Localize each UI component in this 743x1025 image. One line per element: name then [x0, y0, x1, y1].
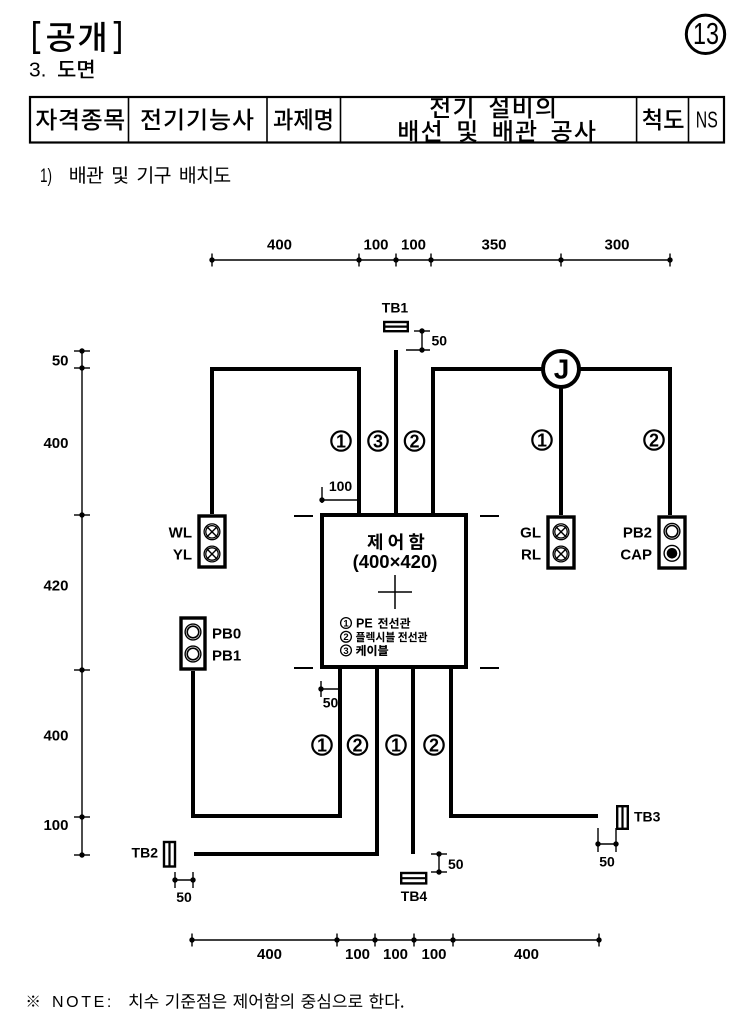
control box center cross	[378, 575, 412, 609]
label TB4	[401, 888, 428, 904]
control box centerline dashes	[294, 516, 499, 668]
junction box J	[543, 351, 579, 387]
svg-text:1: 1	[391, 735, 401, 755]
terminal block TB4	[401, 873, 426, 883]
label TB3	[634, 809, 661, 825]
terminal block TB1	[384, 322, 408, 331]
label PB1	[212, 647, 241, 664]
svg-text:50: 50	[176, 889, 192, 905]
note ※ NOTE: 치수 기준점은 제어함의 중심으로 한다.	[28, 993, 404, 1011]
terminal block TB3	[617, 806, 628, 829]
table cell NS	[696, 107, 718, 133]
legend line ② 플렉시블 전선관	[341, 631, 428, 643]
table cell 자격종목	[36, 109, 124, 131]
table cell 전기 설비의 / 배선 및 배관 공사	[399, 97, 595, 143]
svg-text:3: 3	[343, 646, 348, 657]
dimension 50 at TB4	[431, 851, 464, 874]
svg-text:YL: YL	[173, 547, 192, 564]
svg-text:1): 1)	[40, 165, 52, 187]
dimension 50 at TB2	[172, 872, 195, 905]
caption 1) 배관 및 기구 배치도	[40, 165, 230, 187]
wire control box bottom to PB0/PB1 box	[193, 668, 340, 816]
svg-text:PB1: PB1	[212, 647, 241, 664]
svg-text:WL: WL	[169, 524, 192, 541]
wire control box bottom to TB2	[194, 668, 377, 854]
title [공개]	[34, 22, 119, 53]
svg-text:50: 50	[323, 695, 339, 711]
svg-text:300: 300	[604, 237, 629, 254]
wire label ① lower wire to PB0	[312, 735, 331, 755]
lamp box GL/RL	[548, 517, 574, 568]
label RL	[521, 547, 541, 564]
label TB2	[132, 845, 159, 861]
svg-text:PE: PE	[356, 617, 373, 631]
svg-text:GL: GL	[520, 524, 541, 541]
svg-text:400: 400	[514, 946, 539, 963]
svg-text:400: 400	[43, 728, 68, 745]
header table frame	[30, 97, 724, 143]
control box label (400×420)	[353, 551, 438, 572]
wire TB1 drop to control box top	[394, 350, 398, 515]
wire label ③ upper TB1	[368, 431, 387, 451]
svg-text:50: 50	[432, 332, 448, 348]
wire control box bottom to TB3	[451, 668, 598, 816]
label CAP	[620, 547, 652, 564]
button box PB0/PB1	[181, 618, 205, 669]
svg-text:CAP: CAP	[620, 547, 652, 564]
svg-text:TB1: TB1	[382, 300, 409, 316]
svg-text:100: 100	[329, 478, 353, 494]
wire label ② lower wire to TB2	[348, 735, 367, 755]
label TB1	[382, 300, 409, 316]
svg-text:100: 100	[363, 237, 388, 254]
bottom dimension line 400/100/100/100/400	[189, 934, 601, 964]
section label 3. 도면	[29, 59, 94, 82]
wire control box bottom to TB4	[411, 668, 415, 854]
wire label ② lower wire to TB3	[424, 735, 443, 755]
svg-text:400: 400	[267, 237, 292, 254]
svg-text:100: 100	[401, 237, 426, 254]
top dimension line 400/100/100/350/300	[209, 237, 672, 267]
svg-text:400: 400	[43, 435, 68, 452]
svg-text:1: 1	[336, 431, 346, 451]
label GL	[520, 524, 541, 541]
wire label ① below J	[532, 430, 551, 450]
svg-text:100: 100	[383, 946, 408, 963]
table cell 전기기능사	[141, 109, 253, 131]
control box label 제 어 함	[367, 533, 424, 550]
label WL	[169, 524, 192, 541]
svg-text:2: 2	[352, 735, 362, 755]
dimension 50 at TB1	[406, 328, 447, 352]
svg-text:1: 1	[317, 735, 327, 755]
svg-text:3: 3	[373, 431, 383, 451]
svg-text:TB3: TB3	[634, 809, 661, 825]
legend line ① PE 전선관	[341, 617, 411, 631]
terminal block TB2	[164, 842, 175, 867]
svg-text:100: 100	[421, 946, 446, 963]
table cell 과제명	[274, 109, 332, 131]
svg-text:50: 50	[599, 854, 615, 870]
dimension 100 above control box	[319, 478, 359, 503]
left dimension line 50/400/420/400/100	[43, 348, 90, 857]
svg-text:3.: 3.	[29, 59, 47, 82]
svg-text:J: J	[554, 354, 570, 385]
svg-text:PB2: PB2	[623, 524, 652, 541]
svg-text:2: 2	[409, 431, 419, 451]
wire top-right run: control box top to PB2/CAP box	[433, 369, 670, 515]
wire J drop to GL/RL box	[559, 369, 563, 515]
svg-text:2: 2	[429, 735, 439, 755]
svg-text:350: 350	[481, 237, 506, 254]
svg-text:1: 1	[537, 430, 547, 450]
dimension 50 below control box	[318, 681, 340, 711]
wire top-left run: WL/YL lamp to control box top	[212, 369, 359, 515]
label PB2	[623, 524, 652, 541]
lamp box WL/YL	[199, 516, 225, 567]
svg-text:13: 13	[693, 16, 719, 51]
table cell 척도	[643, 109, 684, 131]
svg-text:100: 100	[345, 946, 370, 963]
svg-text:PB0: PB0	[212, 626, 241, 643]
svg-text:TB4: TB4	[401, 888, 428, 904]
svg-text:50: 50	[448, 856, 464, 872]
button box PB2/CAP	[659, 517, 685, 568]
svg-text:400: 400	[257, 946, 282, 963]
svg-text:RL: RL	[521, 547, 541, 564]
wire label ② right PB2 drop	[644, 430, 663, 450]
dimension 50 at TB3	[595, 828, 618, 870]
svg-text:NS: NS	[696, 107, 718, 133]
page number circle 13	[686, 15, 724, 53]
svg-text:NOTE:: NOTE:	[52, 994, 114, 1011]
svg-text:420: 420	[43, 578, 68, 595]
svg-text:2: 2	[649, 430, 659, 450]
label YL	[173, 547, 192, 564]
wire label ② upper-right of box	[405, 431, 424, 451]
control box 제어함 (400×420)	[322, 515, 466, 667]
wire label ① lower wire to TB4	[386, 735, 405, 755]
legend line ③ 케이블	[341, 645, 389, 657]
svg-text:(400×420): (400×420)	[353, 551, 438, 572]
svg-text:1: 1	[343, 618, 349, 629]
svg-text:TB2: TB2	[132, 845, 159, 861]
svg-text:2: 2	[343, 632, 348, 643]
label PB0	[212, 626, 241, 643]
svg-text:50: 50	[52, 353, 69, 370]
wire label ① upper-left	[331, 431, 350, 451]
svg-text:100: 100	[43, 817, 68, 834]
